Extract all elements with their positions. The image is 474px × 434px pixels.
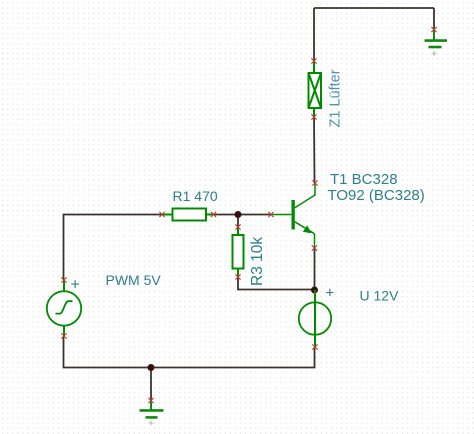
wire ground tap	[150, 368, 152, 401]
motor Z1 (fan)	[309, 61, 322, 117]
wire PWM bottom to bottom rail	[64, 336, 315, 368]
wire node to R3 top	[237, 215, 239, 228]
svg-text:TO92 (BC328): TO92 (BC328)	[328, 187, 425, 204]
svg-text:+: +	[71, 277, 80, 294]
wire top-left vertical to Z1	[313, 8, 315, 61]
wire top horizontal net	[314, 7, 434, 9]
wire T1 emitter to U1 junction	[314, 248, 316, 290]
resistor R3	[233, 227, 244, 277]
junction node ground tap	[148, 364, 155, 371]
svg-text:R1 470: R1 470	[173, 188, 218, 204]
junction node U1 top	[311, 287, 318, 294]
origin cross marks	[149, 51, 437, 426]
wire R3 bottom to U1 top	[238, 277, 315, 290]
svg-text:T1 BC328: T1 BC328	[330, 171, 398, 188]
emitter arrow of T1	[303, 225, 312, 233]
transistor T1 (PNP)	[271, 183, 315, 248]
ground bottom	[140, 401, 164, 418]
source U (12V)	[299, 290, 331, 347]
svg-text:+: +	[326, 285, 335, 302]
resistor R1	[162, 209, 214, 221]
svg-text:U 12V: U 12V	[360, 288, 400, 304]
svg-text:R3 10k: R3 10k	[249, 237, 266, 286]
source PWM (5V)	[47, 280, 81, 336]
wire Z1 bottom to T1 collector	[313, 117, 316, 183]
svg-text:Z1 Lüfter: Z1 Lüfter	[328, 69, 344, 127]
pin connection x-marks	[61, 27, 436, 403]
wire R1 left to left rail	[64, 215, 163, 281]
wire base net: R1 right to T1 base	[214, 214, 272, 216]
ground top right	[425, 30, 448, 48]
svg-text:PWM 5V: PWM 5V	[106, 272, 162, 288]
wire top-right vertical to ground	[433, 8, 435, 30]
junction node base/R1/R3	[235, 211, 242, 218]
